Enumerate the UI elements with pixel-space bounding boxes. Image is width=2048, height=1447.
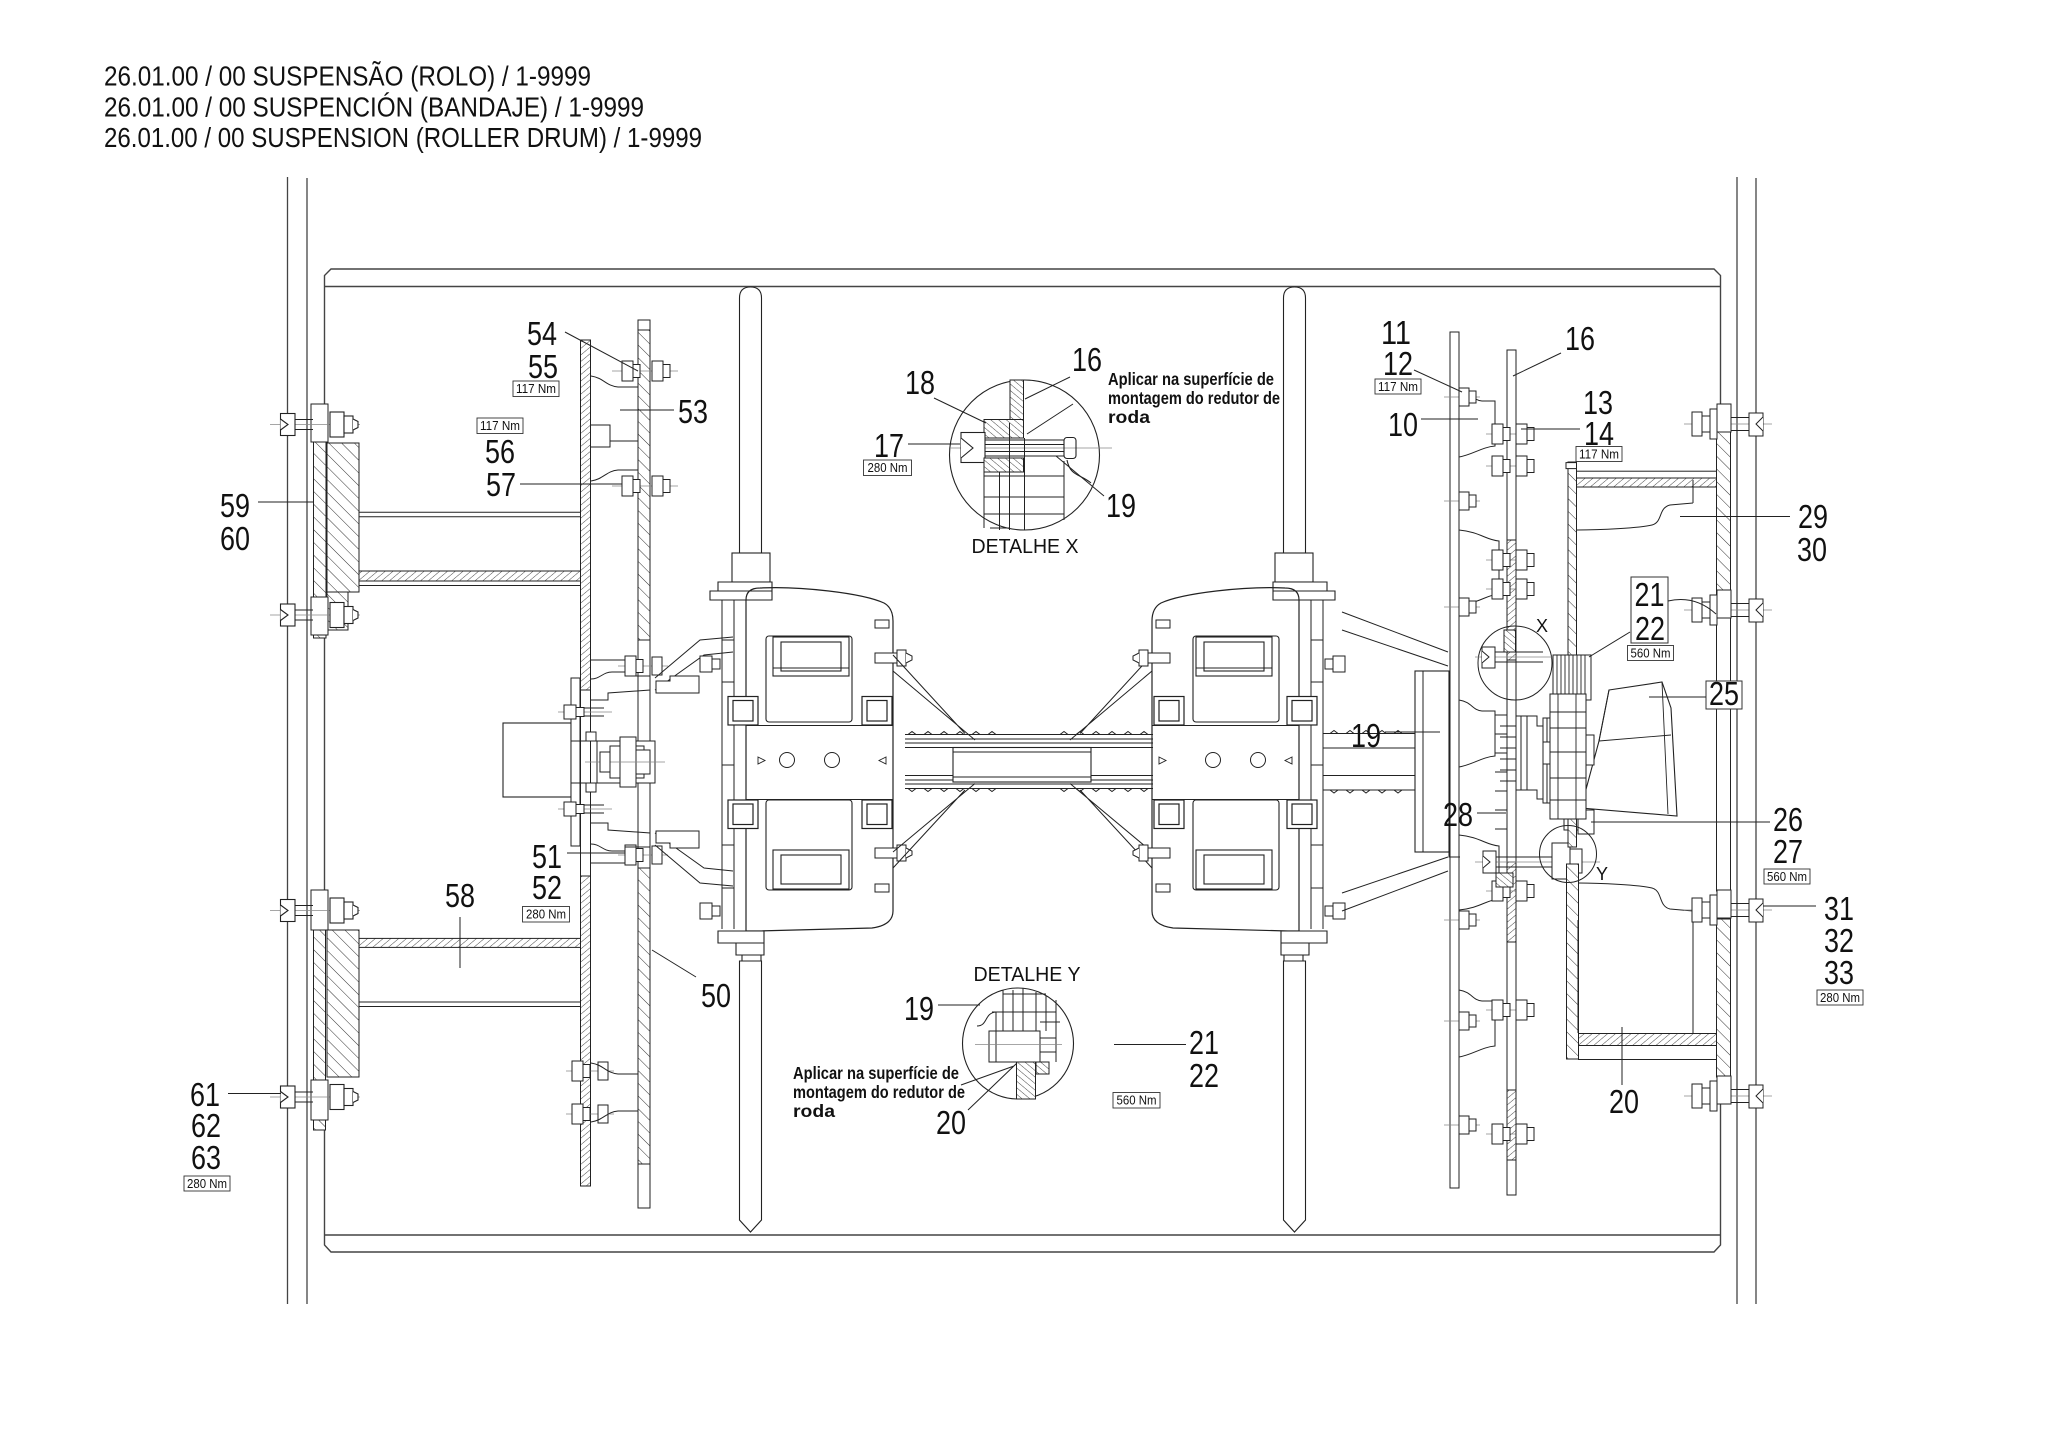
drum bracket: bottom band (1579, 1046, 1718, 1060)
leader 57 (520, 483, 622, 485)
detail X: horizontal hatched plate (18) (984, 420, 1024, 439)
svg-text:17: 17 (874, 427, 904, 464)
tube 58 lower edge (359, 1002, 581, 1007)
leader 16 (right) (1513, 353, 1561, 376)
wheel plate 16 (1507, 350, 1516, 1195)
svg-text:52: 52 (532, 869, 562, 906)
svg-text:roda: roda (793, 1101, 835, 1121)
svg-text:117 Nm: 117 Nm (516, 382, 556, 396)
svg-text:26.01.00 / 00 SUSPENSION (ROLL: 26.01.00 / 00 SUSPENSION (ROLLER DRUM) /… (104, 122, 702, 153)
bracket 59/60 bolt seats (311, 404, 328, 635)
hub left: cap-to-spindle lines (571, 741, 597, 783)
DETALHE X circle (950, 380, 1100, 530)
gearbox left flange bolts left side (700, 656, 720, 919)
svg-text:21: 21 (1189, 1024, 1219, 1061)
plate 50 hatch lower (581, 876, 591, 1186)
pillar right-bottom (1284, 961, 1306, 1232)
gearbox right body (1152, 588, 1323, 931)
marker circle X on drawing (1478, 626, 1552, 700)
svg-text:26.01.00 / 00 SUSPENSÃO (ROLO): 26.01.00 / 00 SUSPENSÃO (ROLO) / 1-9999 (104, 61, 591, 92)
svg-text:29: 29 (1798, 498, 1828, 535)
bolts 13/14 between plates (1486, 424, 1534, 1144)
gearbox right flange bolts right side (1325, 656, 1345, 919)
svg-text:DETALHE X: DETALHE X (972, 535, 1079, 558)
leader 61 (228, 1093, 281, 1095)
bracket 59/60 block (327, 443, 359, 592)
gearbox left centre band (746, 726, 893, 800)
detail Y note text (793, 1063, 965, 1121)
hub right: rim curves (1459, 390, 1499, 1057)
drum bracket: upper inner profile (1577, 480, 1693, 530)
svg-text:55: 55 (528, 348, 558, 385)
svg-text:117 Nm: 117 Nm (1378, 380, 1418, 394)
drum bracket: right wall hatch lower (1717, 919, 1731, 1077)
hub left: small bolts into cap (558, 705, 612, 816)
torque box 280Nm (31-33) (1817, 990, 1863, 1005)
nut 27 at hub (1564, 810, 1594, 834)
leader 50 (652, 950, 696, 977)
detail X: gear block below (984, 423, 1064, 530)
hub right: shaft lines to panel (1323, 731, 1415, 794)
svg-text:22: 22 (1635, 610, 1665, 647)
svg-text:montagem do redutor de: montagem do redutor de (1108, 388, 1280, 408)
svg-text:16: 16 (1072, 341, 1102, 378)
rail bolt top-right (1684, 404, 1772, 439)
tube 58 hatched wall (359, 938, 581, 947)
bolt 59 (top) (270, 412, 360, 437)
rail bolt 31 (1684, 890, 1772, 925)
leader 28 (1477, 812, 1506, 814)
tube 59/60 hatched wall (359, 571, 581, 581)
plate 50 (left disc, outline) (581, 340, 591, 1186)
svg-text:25: 25 (1709, 675, 1739, 712)
drum bracket: S-curve profile to part 20 (1578, 883, 1693, 1033)
bolt 60 (lower of top bracket) (270, 603, 360, 628)
svg-text:50: 50 (701, 977, 731, 1014)
flange steps right-top (1273, 582, 1335, 600)
gearbox left body (722, 588, 893, 931)
svg-text:59: 59 (220, 487, 250, 524)
gearbox left bearing blocks (728, 697, 892, 829)
leader 29/30 (1680, 516, 1790, 518)
torque box 117Nm (13/14) (1576, 447, 1622, 462)
bolt on plate 53 upper hub (618, 656, 668, 676)
pillar left-top collar (732, 553, 770, 582)
leader 10 (1421, 418, 1478, 420)
torque box 280Nm (51/52) (523, 907, 570, 923)
tube 59/60 lower edge (359, 585, 581, 587)
leader 21/22 to gear (1589, 632, 1630, 657)
rail bolt bottom-right (1684, 1076, 1772, 1111)
bracket 59/60 block foot (327, 592, 348, 630)
svg-text:10: 10 (1388, 406, 1418, 443)
gearbox right bottom flange steps (1281, 931, 1327, 961)
rim curves between plates 50/53 upper (591, 376, 638, 481)
boxed label 25 (1706, 675, 1742, 712)
svg-text:16: 16 (1565, 320, 1595, 357)
tube end cap (part 58 head) (503, 723, 571, 797)
bolt pair on plate 50 lower (566, 1061, 614, 1124)
leader 12 (1414, 370, 1462, 392)
svg-text:20: 20 (936, 1104, 966, 1141)
frame: roller drum outline (325, 269, 1721, 1252)
svg-text:26.01.00 / 00 SUSPENCIÓN (BAND: 26.01.00 / 00 SUSPENCIÓN (BANDAJE) / 1-9… (104, 92, 644, 123)
svg-text:Y: Y (1596, 864, 1608, 884)
wheel plate 10 (1450, 332, 1459, 1188)
leader 51 (567, 852, 625, 854)
svg-text:22: 22 (1189, 1057, 1219, 1094)
svg-text:Aplicar na superfície de: Aplicar na superfície de (793, 1063, 959, 1083)
torque box 560Nm (detail Y) (1113, 1093, 1160, 1109)
pillar left-bottom (740, 961, 762, 1232)
flange steps left-top (710, 582, 772, 600)
leader 59 (258, 501, 314, 503)
hub left: upper wheel-rim curves (591, 660, 650, 863)
bolt 56/57 on plate 53 (612, 476, 678, 496)
pillar right-top collar (1275, 553, 1313, 582)
svg-text:63: 63 (191, 1139, 221, 1176)
drum bracket: top hatched strip (1577, 478, 1717, 487)
leader 14 (1521, 428, 1580, 430)
left rail (288, 177, 308, 1304)
pillar right-top (1273, 287, 1335, 600)
svg-text:280 Nm: 280 Nm (868, 461, 908, 475)
svg-text:DETALHE Y: DETALHE Y (974, 963, 1081, 986)
panel 19 (shim plate) (1415, 671, 1460, 857)
svg-text:12: 12 (1383, 345, 1413, 382)
DETALHE Y circle (963, 988, 1074, 1099)
leader 27 (1591, 821, 1770, 823)
svg-text:280 Nm: 280 Nm (187, 1177, 227, 1191)
boxed labels 21/22 (1631, 576, 1668, 647)
detail X: bolt 17 (950, 433, 1112, 484)
drum bracket: left wall lower (1567, 864, 1579, 1059)
detail Y: hatched bar (20) (1017, 1062, 1036, 1099)
svg-text:montagem do redutor de: montagem do redutor de (793, 1082, 965, 1102)
svg-text:20: 20 (1609, 1083, 1639, 1120)
drum bracket: right wall middle (1717, 600, 1731, 891)
bolts 11/12 on plate 10 (1444, 388, 1480, 1134)
plate 53 hatch lower (638, 868, 650, 1164)
right rail (1737, 177, 1756, 1304)
svg-text:560 Nm: 560 Nm (1631, 647, 1671, 661)
svg-text:117 Nm: 117 Nm (1579, 448, 1619, 462)
torque box 117Nm (56/57) (477, 418, 523, 434)
marker circle Y on drawing (1540, 826, 1597, 883)
torque box 280Nm (61-63) (184, 1176, 230, 1191)
gearbox left lower window (766, 800, 852, 890)
leader 19 (main) (1385, 731, 1440, 733)
leader 25 (1649, 696, 1706, 698)
svg-text:21: 21 (1635, 576, 1665, 613)
gearbox right lower roller cartridge (1196, 850, 1272, 889)
gearbox left bottom flange steps (718, 931, 764, 961)
torque box 117Nm (54/55) (513, 381, 559, 397)
gearbox right flange bolts left side (1133, 620, 1170, 892)
leader 20 (main) (1621, 1027, 1623, 1085)
detail Y: nut stack (21) (975, 988, 1062, 1062)
svg-text:Aplicar na superfície de: Aplicar na superfície de (1108, 369, 1274, 389)
svg-text:33: 33 (1824, 954, 1854, 991)
drum bracket: left wall upper (part 20 wall) (1568, 462, 1577, 847)
detail X: vertical hatched bar (16) (1010, 380, 1024, 420)
plate 50 hatch upper (581, 340, 591, 690)
cone 25 (thrust cone) (1581, 682, 1677, 816)
svg-text:53: 53 (678, 393, 708, 430)
bracket 61/62/63 bolt seats (311, 890, 328, 1120)
gearbox left lower roller cartridge (773, 850, 849, 889)
leader 58 (459, 917, 461, 968)
title block (104, 61, 702, 154)
hatched plate in marker X (1504, 630, 1516, 652)
detail Y: washer hatch (1036, 1062, 1049, 1074)
gearbox right oil holes (1206, 753, 1221, 768)
hub left: spacer column (571, 678, 580, 846)
tube 59/60 upper walls (359, 512, 581, 517)
planet hub stack (1543, 694, 1594, 819)
gearbox right upper window (1193, 636, 1279, 722)
leader 21 (detail Y) (1114, 1044, 1186, 1046)
svg-text:54: 54 (527, 315, 557, 352)
svg-text:18: 18 (905, 364, 935, 401)
bolt 58-seat (top of bottom bracket) (270, 898, 360, 923)
drum bracket: right wall hatch upper (1717, 432, 1731, 600)
bracket 59/60 plate (314, 431, 360, 638)
svg-text:28: 28 (1443, 796, 1473, 833)
svg-text:19: 19 (1106, 487, 1136, 524)
drum bracket: top band (1566, 463, 1717, 479)
rail bolt 21/22-right (1684, 590, 1772, 625)
bracket 61/62/63 plate (314, 891, 360, 1130)
bracket 61/62/63 block (327, 930, 359, 1077)
leaders 20 (detail Y) (961, 1063, 1017, 1110)
gearbox left oil holes (780, 753, 795, 768)
leader 18 (934, 398, 986, 423)
svg-text:19: 19 (1351, 717, 1381, 754)
rim curves between plates 50/53 lower (591, 1063, 638, 1122)
axle: lower shaft tube (905, 776, 1153, 792)
svg-text:19: 19 (904, 990, 934, 1027)
torque box 117Nm (11/12) (1375, 379, 1421, 394)
pillar left-top (710, 287, 772, 600)
svg-text:560 Nm: 560 Nm (1767, 870, 1807, 884)
leader 19 (detail Y) (938, 1004, 980, 1006)
hub left: centre spindle stack (585, 732, 665, 792)
torque box 560Nm (21/22) (1628, 646, 1674, 661)
svg-text:X: X (1536, 616, 1548, 636)
drum bracket: bottom hatched strip (1579, 1034, 1718, 1046)
detail X: hatched washer under bolt (984, 458, 1024, 472)
wheel plate 16 hatch segments (1507, 540, 1516, 1160)
gearbox left upper roller cartridge (773, 637, 849, 676)
leader 54/55 (565, 332, 638, 371)
gearbox right bearing blocks (1154, 697, 1317, 829)
gearbox left flange bolts right side (875, 620, 912, 892)
hub left: caliper bracket upper (656, 676, 699, 693)
axle: upper shaft tube (905, 732, 1153, 748)
torque box 560Nm (26/27) (1764, 869, 1810, 884)
bolt 61 (270, 1085, 360, 1110)
svg-text:560 Nm: 560 Nm (1117, 1094, 1157, 1108)
bolt 54/55 on plate 53 (612, 361, 678, 381)
leader 21/22 curved to wall bolt (1668, 599, 1716, 614)
plate 53 (right disc, outline) (638, 320, 650, 1208)
detail X note text (1108, 369, 1280, 427)
svg-text:58: 58 (445, 877, 475, 914)
torque box 280Nm (17) (864, 460, 912, 476)
gearbox left upper window (766, 636, 852, 722)
svg-text:57: 57 (486, 466, 516, 503)
gearbox right centre band (1152, 726, 1299, 800)
wheel studs on plate 16 (1495, 715, 1507, 829)
gearbox right upper roller cartridge (1196, 637, 1272, 676)
svg-text:60: 60 (220, 520, 250, 557)
svg-text:27: 27 (1773, 833, 1803, 870)
gear 28 stack (sun gear shaft) (1500, 716, 1560, 803)
leaders 16 (detail X) (1025, 377, 1073, 434)
splined coupling gear 19/25 (1553, 655, 1591, 700)
svg-text:roda: roda (1108, 407, 1150, 427)
plate 53 hatch upper (638, 330, 650, 640)
svg-text:280 Nm: 280 Nm (526, 908, 566, 922)
svg-text:117 Nm: 117 Nm (480, 419, 520, 433)
bolt 21/22 lower (at Y marker) (1475, 843, 1600, 879)
washer hatched at Y (1496, 873, 1513, 887)
leader 19 (detail X) (1056, 456, 1104, 496)
svg-text:30: 30 (1797, 531, 1827, 568)
gearbox right lower window (1193, 800, 1279, 890)
leader 17 (908, 443, 960, 445)
svg-text:280 Nm: 280 Nm (1820, 991, 1860, 1005)
bolt 51 on plate 53 lower hub (618, 845, 668, 865)
axle: centre sleeve (953, 748, 1091, 783)
svg-text:56: 56 (485, 433, 515, 470)
hub left: cone to gearbox upper (655, 637, 733, 886)
axle: cone joints to gearboxes (893, 655, 1152, 868)
hub right: cone from gearbox to wheel plates (1342, 612, 1448, 911)
bolt 17 in marker X (1475, 647, 1560, 668)
leader 31 (1763, 905, 1816, 907)
leader 53 (620, 409, 674, 411)
hub left: caliper bracket lower (656, 831, 699, 848)
